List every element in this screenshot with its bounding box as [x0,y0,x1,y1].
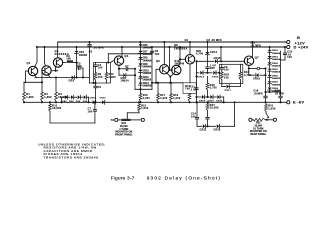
diode CR3 on emitter rail [72,76,74,80]
svg-text:1 TURN: 1 TURN [119,128,128,131]
svg-text:R2: R2 [44,93,48,96]
svg-text:TO: TO [111,119,115,122]
wire Q1 base [26,70,29,72]
diode CR20 [268,62,272,64]
wire base bottom rail [24,81,26,83]
svg-text:CR3: CR3 [69,80,75,83]
svg-text:CR15: CR15 [212,76,219,78]
svg-text:1N914: 1N914 [121,79,130,82]
svg-text:R3: R3 [58,93,62,96]
svg-text:FRONT PANEL: FRONT PANEL [115,134,133,137]
resistor R18 1000 [170,83,172,94]
svg-text:CR22: CR22 [272,75,279,77]
wire Q4 collector to bus B [121,47,123,56]
terminal B +12V [287,40,290,43]
svg-text:25,000: 25,000 [120,125,128,128]
right chain frame left [265,69,267,93]
svg-text:C8 .05 MFD: C8 .05 MFD [207,39,222,42]
diode row y73 [197,72,199,74]
svg-text:CR9: CR9 [143,64,149,66]
svg-text:CR1: CR1 [79,51,85,54]
capacitor C10b right [284,47,286,53]
diode CR21 [268,69,272,71]
svg-text:R9: R9 [98,73,102,76]
svg-text:.1 UF: .1 UF [190,88,197,91]
capacitor C6 on frame right [150,50,153,52]
svg-text:1N456A: 1N456A [272,71,281,74]
diode CR6 [139,44,143,46]
svg-text:CR20: CR20 [272,63,279,65]
right chain frame bottom [266,91,281,93]
svg-text:C11: C11 [190,86,195,89]
resistor R8 on Q3 base [63,62,66,64]
cap C5b below box1 [95,83,97,86]
wire bus A left end down to Q3 collector [57,42,59,58]
svg-text:1,800: 1,800 [109,76,117,79]
svg-text:.01 MFD: .01 MFD [254,93,263,95]
svg-text:Q6: Q6 [174,43,178,47]
svg-text:REAR PANEL: REAR PANEL [250,133,266,136]
svg-text:CR16: CR16 [253,78,261,81]
svg-text:R1: R1 [26,93,30,96]
feedback diode CR16b [248,69,250,76]
resistor R11 16000 below bus [49,102,51,104]
transistor Q3 [53,58,62,67]
wire Q2 collector to bus B [44,47,46,62]
capacitor C17 to bus [280,92,282,96]
svg-text:1,000: 1,000 [173,97,181,100]
svg-text:35V: 35V [210,67,215,70]
svg-text:100: 100 [98,76,103,79]
bus diode CR12 [102,100,104,104]
svg-text:Q4: Q4 [124,54,128,58]
svg-text:CR20: CR20 [216,101,223,103]
svg-text:1 UF: 1 UF [210,64,216,67]
svg-text:1,750: 1,750 [210,88,217,90]
svg-text:CR18: CR18 [272,50,279,52]
svg-text:R8: R8 [66,55,70,58]
capacitor C7b [94,102,96,109]
svg-text:C5: C5 [98,86,102,89]
svg-text:100: 100 [98,67,103,70]
diode CR19 [268,56,272,58]
wire Q6b base [180,58,185,60]
diode CR18 [268,50,272,52]
svg-text:CR22: CR22 [214,129,222,132]
svg-text:.05 MFD: .05 MFD [93,46,104,49]
svg-text:C4: C4 [98,64,102,67]
diode CR24 [268,88,272,90]
transistor Q4 [114,56,123,65]
box2 branch R24 4700 [239,64,241,72]
base line to Q7 [220,47,222,61]
svg-text:1N3605: 1N3605 [143,73,152,75]
capacitor C11 .1UF [195,87,198,89]
wire rail-end vertical x196.5 [196,61,198,87]
svg-text:R10: R10 [109,73,115,76]
svg-text:180: 180 [66,58,71,61]
wire R11 bottom to C7b [49,112,51,124]
svg-text:E -6V: E -6V [293,100,304,105]
svg-text:Q5: Q5 [156,59,160,63]
pot wiper arrow [266,113,268,117]
terminal E -6V [287,101,290,104]
svg-text:CR19: CR19 [272,57,279,59]
diode CR17 below box2 [221,84,223,87]
diode CR7 [139,51,143,53]
resistor R2 1800 [41,82,43,92]
svg-text:Q1: Q1 [27,61,31,65]
svg-text:CR21: CR21 [200,129,208,132]
emitter wire with contact [249,68,257,70]
wire Q2 base [42,70,45,72]
module box R19 750 [183,83,196,94]
svg-text:CR2: CR2 [62,101,67,103]
svg-text:1,000: 1,000 [143,97,151,100]
capacitor C10 1UF 35V [206,66,209,68]
vernier pot R32 [249,118,252,121]
svg-text:C5: C5 [89,52,93,54]
transistor Q6 [172,65,181,74]
transistor Q1 [28,66,37,75]
cross-coupling wire y54 [107,54,109,63]
svg-text:R27: R27 [210,104,216,107]
svg-text:1,000: 1,000 [160,97,168,100]
svg-text:1N456A: 1N456A [272,64,281,67]
svg-text:CR21: CR21 [272,69,279,71]
wire Q5 base [156,68,160,70]
box1 branch C4 R9 [95,63,97,65]
svg-text:TRANSISTORS ARE 2N3646: TRANSISTORS ARE 2N3646 [44,156,99,160]
diode CR5 branch [118,69,120,75]
wire box1 to Q4 base [111,61,114,63]
terminal D +24V [287,45,290,48]
svg-text:1N456A: 1N456A [272,52,281,55]
svg-text:D +24V: D +24V [294,44,309,49]
svg-text:R22: R22 [122,122,127,125]
svg-text:1N456A: 1N456A [143,66,152,69]
power bus A +12V [58,41,287,43]
box2 branch C9 R23 [221,64,223,67]
wire Q5 collector to bus A [163,42,165,65]
emitter rail of Q1 Q2 [35,77,89,79]
svg-text:.01 MFD: .01 MFD [275,93,284,95]
transistor Q5 [160,65,169,74]
ground bus -6V [24,101,287,103]
resistor R21 1000 [138,102,140,104]
svg-text:9302 Delay (One-Shot): 9302 Delay (One-Shot) [147,175,222,180]
svg-text:CR12: CR12 [100,97,107,99]
wire Q6b emitter [189,64,191,83]
svg-text:10V: 10V [287,57,292,59]
row end verticals [61,97,63,102]
svg-text:16,000: 16,000 [52,107,62,110]
box1 branch R10 [106,63,108,73]
svg-text:.01 MFD: .01 MFD [251,45,262,47]
svg-text:R16: R16 [143,94,149,97]
svg-text:1N3605: 1N3605 [143,79,152,81]
timing box1 bottom wire [90,82,94,84]
emitter rail y83 [152,82,183,84]
resistor R17 1000 [157,83,159,94]
svg-text:R18: R18 [173,94,179,97]
svg-text:CR14: CR14 [198,75,205,78]
svg-text:CR16: CR16 [214,57,222,60]
svg-text:CR18: CR18 [199,101,206,103]
svg-text:1,800: 1,800 [44,96,52,99]
diode CR9 [139,63,143,65]
svg-text:1N456A: 1N456A [272,58,281,61]
lower loop wire [197,125,202,127]
diode CR22 [268,75,272,77]
svg-text:Q7: Q7 [255,56,259,60]
lower loop capacitors [207,111,209,118]
resistor R3 16000 [55,78,57,93]
svg-text:100: 100 [77,65,82,68]
svg-text:CR14: CR14 [210,51,218,54]
svg-text:R17: R17 [160,94,166,97]
resistor R26 on column [207,76,209,83]
svg-text:C17: C17 [275,91,280,93]
right chain frame right [280,51,282,92]
svg-text:100: 100 [224,76,229,79]
zener CR1 [76,47,78,50]
diode CR10 [139,70,143,72]
wire Q6 collector [179,63,180,66]
chain frame bottom [135,88,152,90]
svg-text:C9: C9 [224,66,228,69]
resistor R1 1800 [23,92,26,101]
common emitter node Q5 Q6 [167,73,171,77]
chain frame left [134,69,136,90]
svg-text:CR4: CR4 [69,100,74,103]
wire Q6b collector to bus A [189,42,191,55]
svg-text:C8: C8 [185,39,189,42]
diode CR12 [139,82,143,84]
svg-text:R23: R23 [224,74,230,77]
svg-text:100: 100 [88,110,93,113]
capacitor C3 coupling [77,67,79,69]
diode row y97 [197,96,201,98]
svg-text:1N965B: 1N965B [143,86,152,88]
diode chain from bus A [140,42,142,44]
svg-text:CR7: CR7 [143,51,149,53]
svg-text:25,000: 25,000 [254,124,262,127]
svg-text:1,800: 1,800 [26,96,34,99]
svg-text:Figure 3-7: Figure 3-7 [111,175,135,180]
resistor R19 zigzag to bus [188,94,191,102]
svg-text:100: 100 [224,69,229,72]
svg-text:CR23: CR23 [272,82,279,84]
svg-text:100: 100 [191,115,196,118]
svg-text:MOUNTED ON: MOUNTED ON [250,130,267,133]
wire bus B left end down to Q1 collector [36,47,38,62]
svg-text:1N965: 1N965 [79,54,88,57]
power bus B +24V [37,46,287,48]
column CR14 from bus A [207,42,209,52]
transistor Q7 [244,56,253,65]
diode CR22 [217,124,219,128]
resistor R16 1000 [140,89,142,93]
transistor Q6b [185,55,194,64]
svg-text:CR12: CR12 [143,83,150,85]
svg-text:10 TURN: 10 TURN [253,127,264,130]
diode CR8 [139,57,143,59]
svg-text:.01: .01 [287,54,291,56]
svg-text:180: 180 [155,53,160,56]
svg-text:CR8: CR8 [143,58,149,60]
svg-text:R25: R25 [196,50,202,53]
wire Q4 emitter node [118,65,120,69]
svg-text:C6: C6 [155,50,159,53]
svg-text:CR24: CR24 [272,87,279,90]
wire pot to right terminal [131,119,142,121]
svg-text:CR10: CR10 [90,97,97,99]
svg-text:C14: C14 [191,113,197,116]
svg-text:Q3: Q3 [55,49,59,53]
capacitor C7 emitter branch [119,68,126,70]
svg-text:CR11: CR11 [143,77,150,79]
svg-text:R32: R32 [256,122,261,125]
wire Q7 collector [251,42,253,57]
svg-text:R21: R21 [141,104,147,107]
svg-text:MOUNTED ON: MOUNTED ON [115,131,132,134]
chain frame right from bus B [151,47,153,89]
svg-text:B: B [297,35,300,40]
svg-text:R31: R31 [268,105,274,108]
svg-text:CR19: CR19 [208,101,215,103]
bus diode CR10 [93,100,95,104]
svg-text:C10: C10 [287,52,292,54]
diode CR23 [268,81,272,83]
transistor Q2 [42,66,51,75]
resistor R31 2000 [265,102,267,104]
diode row above bus left [62,96,64,98]
svg-text:CR17: CR17 [225,90,232,92]
capacitor C16 to bus [265,92,267,96]
svg-text:2,000: 2,000 [268,107,276,110]
svg-text:1,000: 1,000 [141,107,149,110]
svg-text:1N3605: 1N3605 [272,78,281,80]
svg-text:CR8: CR8 [83,101,88,103]
wire Q7 emitter node [248,65,250,68]
capacitor C5 decoupling [89,42,91,44]
wire Q6 base [170,69,173,71]
svg-text:C16: C16 [254,91,259,93]
svg-text:1N456A: 1N456A [143,59,152,62]
svg-text:R26: R26 [210,85,215,87]
svg-text:1N965B: 1N965B [272,84,281,86]
svg-text:4,700: 4,700 [196,53,204,56]
module box1 outline [94,63,111,84]
svg-text:750: 750 [185,88,190,91]
svg-text:R11: R11 [52,104,58,107]
diode CR21 [203,124,205,128]
svg-text:CR6: CR6 [143,45,149,47]
svg-text:C7: C7 [88,108,92,111]
svg-text:C7: C7 [125,66,129,68]
diode CR11 [139,76,143,78]
resistor R27 10000 [206,101,208,103]
svg-text:CR6: CR6 [76,101,81,103]
right diode chain from bus B [269,47,271,49]
svg-text:CR10: CR10 [143,70,150,72]
wire Q3 emitter to Q2 collector node [55,67,57,71]
box2 module outline [219,64,242,83]
svg-text:C12: C12 [251,43,256,45]
svg-text:10,000: 10,000 [210,107,219,110]
